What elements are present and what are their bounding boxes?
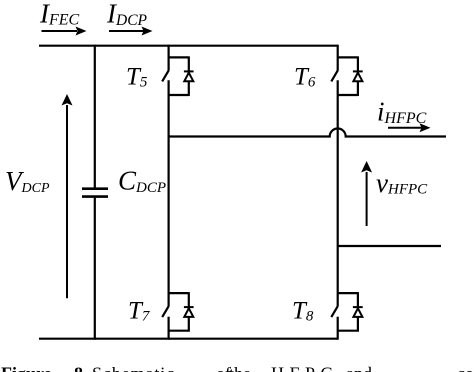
svg-text:HFPC: HFPC: [271, 363, 338, 372]
svg-text:Figure: Figure: [1, 363, 52, 372]
svg-text:IFEC: IFEC: [39, 0, 80, 29]
svg-text:T5: T5: [126, 64, 148, 91]
svg-text:Schematic: Schematic: [92, 363, 175, 372]
svg-text:T7: T7: [128, 298, 151, 325]
svg-text:T6: T6: [294, 64, 316, 91]
svg-text:IDCP: IDCP: [106, 0, 148, 29]
svg-text:VDCP: VDCP: [5, 166, 50, 196]
svg-text:8.: 8.: [74, 363, 88, 372]
svg-text:the: the: [229, 363, 251, 372]
svg-text:T8: T8: [292, 298, 314, 325]
svg-text:connected: connected: [457, 363, 474, 372]
svg-text:iHFPC: iHFPC: [377, 97, 427, 128]
svg-text:CDCP: CDCP: [118, 166, 166, 197]
svg-text:and: and: [346, 363, 372, 372]
svg-text:vHFPC: vHFPC: [376, 168, 428, 198]
